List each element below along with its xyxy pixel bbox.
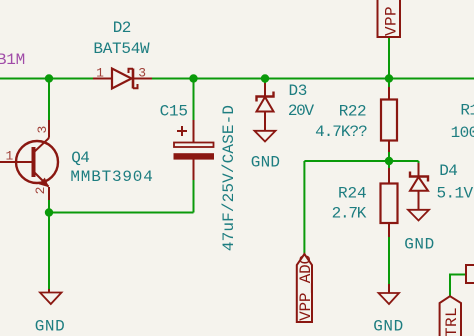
- junction at emitter/C15 node: [45, 208, 53, 216]
- resistor R22 top pin: [388, 87, 390, 100]
- svg-text:4.7K??: 4.7K??: [315, 123, 367, 141]
- capacitor C15 bottom plate: [174, 153, 215, 159]
- wire main horizontal left segment: [0, 78, 93, 80]
- svg-text:5.1V: 5.1V: [437, 185, 474, 203]
- ground symbol for D3: [255, 131, 276, 142]
- junction at C15 column: [189, 74, 197, 82]
- wire R24 bottom to GND: [388, 237, 390, 284]
- ground symbol below Q4 emitter: [48, 289, 50, 293]
- svg-text:MMBT3904: MMBT3904: [70, 168, 153, 186]
- svg-text:47uF/25V/CASE-D: 47uF/25V/CASE-D: [220, 105, 238, 251]
- svg-text:2: 2: [33, 187, 48, 195]
- svg-text:VPP_ADC: VPP_ADC: [297, 255, 315, 321]
- transistor Q4 base pin: [0, 161, 32, 163]
- wire R22 bottom to junction: [388, 152, 390, 161]
- wire horizontal emitter to C15 bottom: [48, 212, 194, 214]
- svg-text:C15: C15: [160, 103, 188, 121]
- svg-text:BAT54W: BAT54W: [93, 40, 150, 58]
- svg-text:D4: D4: [439, 162, 457, 180]
- zener D3 body: [257, 92, 274, 131]
- transistor Q4 emitter pin: [48, 187, 50, 200]
- wire D3 stub: [264, 79, 266, 85]
- wire TRL vertical: [449, 275, 451, 297]
- wire Q4 collector drop: [48, 79, 50, 121]
- svg-text:20V: 20V: [288, 102, 315, 120]
- transistor Q4 body: [16, 138, 58, 187]
- wire junction down to GND: [48, 213, 50, 290]
- wire horizontal VPP_ADC to D4: [304, 160, 418, 162]
- wire D4 corner: [418, 161, 420, 163]
- svg-text:Q4: Q4: [71, 149, 89, 167]
- svg-text:R22: R22: [339, 102, 366, 120]
- svg-text:VPP: VPP: [382, 6, 400, 36]
- capacitor C15 top plate: [174, 143, 214, 148]
- svg-text:2.7K: 2.7K: [332, 205, 367, 223]
- connector fragment at right edge: [466, 265, 474, 283]
- svg-text:GND: GND: [35, 318, 66, 336]
- svg-text:GND: GND: [404, 236, 435, 254]
- svg-text:3: 3: [138, 65, 146, 80]
- svg-text:D3: D3: [289, 82, 308, 100]
- resistor R22 body: [381, 100, 397, 141]
- svg-text:GND: GND: [251, 154, 280, 172]
- junction at VPP column: [385, 74, 393, 82]
- junction at Q4 collector column: [45, 74, 53, 82]
- svg-text:R19: R19: [460, 102, 474, 120]
- zener D3 cathode pin: [264, 83, 266, 97]
- capacitor C15 bottom pin: [193, 159, 195, 180]
- resistor R24 body: [381, 184, 398, 224]
- ground symbol below R24: [388, 284, 390, 293]
- junction at D3 column: [261, 74, 269, 82]
- junction at R22/R24 node: [385, 157, 393, 165]
- Q4 emitter arrow: [39, 178, 49, 188]
- wire VPP_ADC drop: [303, 161, 305, 254]
- svg-text:D2: D2: [113, 19, 131, 37]
- global label TRL: [440, 296, 461, 336]
- zener D4 body: [410, 172, 428, 210]
- wire main horizontal right segment: [152, 78, 474, 80]
- capacitor C15 plus sign: [177, 126, 187, 136]
- capacitor C15 top pin: [193, 120, 195, 143]
- svg-text:GND: GND: [373, 318, 404, 336]
- zener D4 cathode pin: [418, 163, 420, 177]
- svg-text:3: 3: [35, 126, 50, 134]
- global label VPP: [378, 0, 401, 37]
- wire C15 top drop: [193, 79, 195, 121]
- diode D2 body: [112, 69, 138, 89]
- svg-text:1: 1: [96, 65, 104, 80]
- wire VPP drop: [388, 38, 390, 79]
- global label VPP_ADC: [297, 254, 315, 322]
- svg-text:R24: R24: [338, 185, 367, 203]
- wire VPP junction to R22: [388, 79, 390, 88]
- wire C15 bottom to corner: [193, 180, 195, 213]
- wire TRL horizontal: [449, 274, 466, 276]
- resistor R22 bottom pin: [388, 141, 390, 153]
- ground symbol for D4: [408, 210, 429, 221]
- wire Q4 emitter to junction: [48, 200, 50, 212]
- svg-text:B1M: B1M: [0, 51, 25, 69]
- svg-text:TRL: TRL: [443, 307, 461, 336]
- svg-text:100K: 100K: [451, 124, 474, 142]
- resistor R24 top pin: [388, 168, 390, 184]
- resistor R24 bottom pin: [388, 223, 390, 238]
- transistor Q4 collector pin: [48, 120, 50, 138]
- wire junction to R24: [388, 161, 390, 168]
- svg-text:1: 1: [5, 149, 13, 164]
- diode D2 pin 3 line: [133, 78, 152, 80]
- diode D2 pin 1 line: [93, 78, 112, 80]
